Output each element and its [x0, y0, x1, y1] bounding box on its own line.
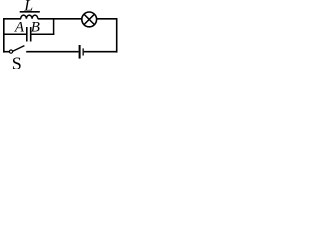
inductor core bar	[20, 11, 40, 13]
svg-text:S: S	[12, 53, 22, 69]
wire: switch to bottom-left corner	[3, 51, 9, 53]
switch S pivot circle	[9, 50, 12, 53]
wire: lamp to top-right corner	[97, 18, 118, 20]
svg-text:B: B	[31, 20, 40, 36]
switch S lever	[13, 46, 25, 52]
wire: capacitor branch left segment	[3, 33, 26, 35]
svg-text:L: L	[23, 0, 33, 15]
battery cell: long plate	[79, 45, 81, 59]
wire: top-left horizontal into coil	[3, 18, 21, 20]
wire: battery to switch	[26, 51, 78, 53]
capacitor right plate	[30, 27, 32, 42]
wire: right vertical	[116, 18, 118, 53]
lamp X1 (circle with X)	[82, 12, 97, 27]
wire: LC box right vertical	[53, 18, 55, 35]
background	[0, 0, 120, 69]
wire: bottom right to battery	[84, 51, 118, 53]
battery cell: short plate	[82, 48, 84, 55]
wire: left vertical	[3, 18, 5, 53]
svg-text:A: A	[14, 20, 25, 36]
wire: coil to T-junction and on to lamp	[38, 18, 82, 20]
wire: capacitor branch right segment	[32, 33, 55, 35]
capacitor left plate	[26, 27, 28, 42]
inductor L coil (3 bumps)	[21, 15, 38, 19]
